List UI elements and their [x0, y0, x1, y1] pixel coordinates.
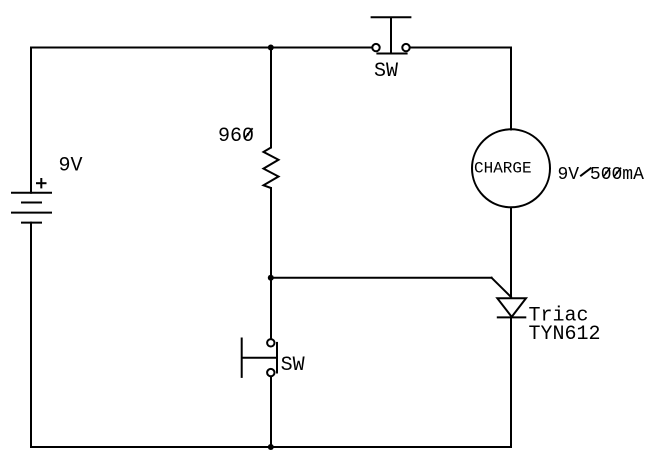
wire left rail upper	[30, 48, 32, 193]
slash on second zero of 500	[614, 168, 621, 177]
battery B1	[11, 193, 52, 223]
wire middle column upper	[270, 48, 272, 148]
resistor R1 960 zigzag	[264, 148, 279, 189]
wire gate diagonal	[492, 278, 511, 297]
battery plus sign	[36, 178, 47, 188]
junction node gate	[268, 275, 274, 281]
wire right rail middle	[510, 208, 512, 299]
wire bottom rail	[31, 446, 511, 448]
svg-text:SW: SW	[374, 60, 398, 83]
wire right rail upper	[510, 48, 512, 130]
wire gate horizontal	[271, 277, 492, 279]
slash on zero of 960	[244, 128, 252, 139]
switch SW top left terminal circle	[372, 44, 379, 51]
triac cathode bar	[497, 316, 527, 318]
switch SW bottom lower terminal circle	[267, 369, 274, 376]
svg-text:TYN612: TYN612	[529, 323, 601, 346]
junction node top	[268, 45, 274, 51]
junction node bottom	[268, 444, 274, 450]
wire middle column mid	[270, 188, 272, 339]
svg-text:CHARGE: CHARGE	[474, 159, 532, 177]
slash in 9V/500mA	[580, 168, 591, 177]
switch SW top right terminal circle	[402, 44, 409, 51]
wire right rail lower	[510, 318, 512, 448]
svg-text:9V 500mA: 9V 500mA	[558, 165, 645, 185]
svg-text:9V: 9V	[59, 155, 83, 178]
switch SW bottom upper terminal circle	[267, 339, 274, 346]
triac U1 triangle	[497, 298, 526, 317]
wire middle column lower	[270, 377, 272, 448]
wire left rail lower	[30, 223, 32, 447]
switch SW bottom pushbutton actuator	[242, 338, 277, 378]
lamp CHARGE circle	[472, 129, 550, 207]
slash on first zero of 500	[604, 168, 611, 177]
wire top rail left segment	[31, 47, 372, 49]
svg-text:SW: SW	[281, 354, 305, 377]
svg-text:960: 960	[218, 125, 254, 148]
wire top rail right segment	[410, 47, 511, 49]
switch SW top pushbutton actuator	[371, 17, 412, 53]
